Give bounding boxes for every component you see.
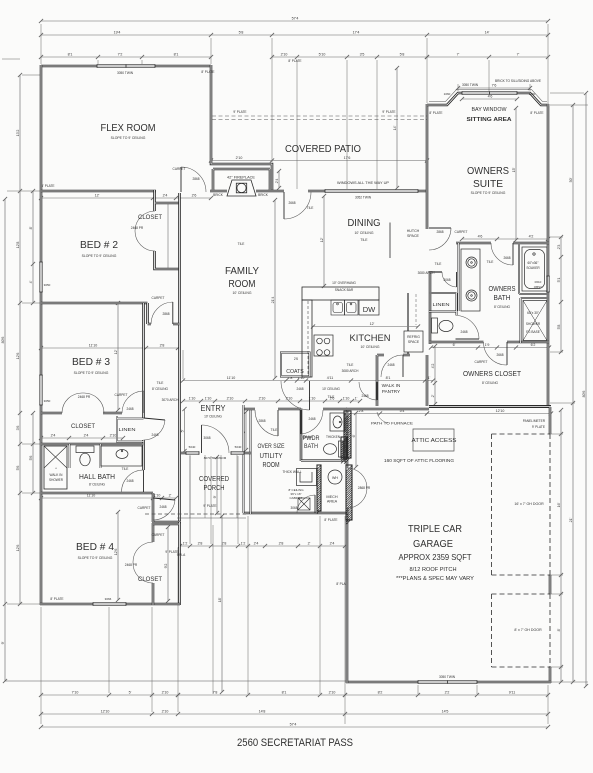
porch post lines — [190, 455, 237, 518]
dim suite v — [515, 108, 517, 240]
svg-text:1'2: 1'2 — [241, 541, 246, 545]
svg-text:3050 TWIN: 3050 TWIN — [462, 83, 479, 87]
fixture owners vanity — [461, 249, 480, 311]
fixture walk-in shower — [44, 446, 67, 489]
svg-text:4'11: 4'11 — [327, 376, 333, 380]
ext right h10 — [550, 666, 563, 668]
door bed3 2468 — [143, 391, 145, 413]
svg-text:50': 50' — [569, 177, 573, 182]
wall porch east / utility west — [250, 409, 252, 514]
svg-text:SPACE: SPACE — [408, 340, 420, 344]
svg-text:LINEN: LINEN — [433, 302, 450, 307]
ext left h3 — [22, 302, 40, 304]
svg-text:2'10: 2'10 — [110, 433, 117, 437]
svg-text:8' PLATE: 8' PLATE — [429, 111, 442, 115]
svg-text:OBSC: OBSC — [534, 285, 543, 289]
svg-text:5'10: 5'10 — [319, 52, 326, 56]
dim bed3 v — [117, 303, 119, 410]
svg-text:OWNERS: OWNERS — [489, 286, 516, 293]
svg-text:CARPET: CARPET — [115, 393, 128, 397]
door garage double 2868PR — [347, 468, 367, 508]
svg-text:2560 SECRETARIAT PASS: 2560 SECRETARIAT PASS — [237, 737, 353, 749]
svg-text:3080 ARCH: 3080 ARCH — [342, 369, 360, 373]
wall linen-suite walls — [429, 293, 457, 315]
svg-text:CARPET: CARPET — [152, 533, 165, 537]
furnace leader — [377, 412, 388, 423]
svg-text:12'6: 12'6 — [16, 545, 20, 552]
svg-text:4' PLATE: 4' PLATE — [41, 184, 54, 188]
fixture wc toilet — [432, 318, 454, 333]
svg-text:BED # 2: BED # 2 — [80, 240, 118, 251]
svg-text:2468: 2468 — [308, 417, 315, 421]
svg-text:10' CEILING: 10' CEILING — [361, 345, 380, 349]
dim porch v — [216, 457, 218, 513]
svg-text:1'10: 1'10 — [154, 493, 161, 497]
fixture stove — [314, 335, 333, 356]
svg-text:8070 TRANSOM: 8070 TRANSOM — [204, 456, 227, 460]
svg-text:REFRIG: REFRIG — [407, 335, 420, 339]
svg-text:2': 2' — [308, 541, 311, 545]
svg-text:BAY WINDOW: BAY WINDOW — [472, 107, 507, 113]
door bed2 closet bifold 2468PR — [135, 211, 155, 251]
wall pwdr-utility wall — [301, 436, 312, 438]
ext x297 — [296, 60, 298, 189]
dim left overall — [4, 199, 6, 681]
svg-text:12'10: 12'10 — [101, 709, 110, 713]
svg-text:TILE: TILE — [360, 238, 368, 242]
svg-text:DINING: DINING — [348, 218, 381, 229]
svg-text:2'10: 2'10 — [259, 396, 266, 400]
dim hall row dims — [183, 380, 433, 382]
svg-text:PWDR: PWDR — [303, 436, 321, 442]
svg-text:15': 15' — [512, 167, 516, 172]
svg-text:14': 14' — [485, 30, 490, 34]
door pantry 2468 — [402, 355, 404, 377]
ext right h3 — [550, 402, 575, 404]
svg-text:GARAGE: GARAGE — [413, 539, 453, 550]
svg-text:10' CEILING: 10' CEILING — [204, 415, 222, 419]
ext right h2 — [550, 92, 584, 94]
svg-text:SLOPE TO 9' CEILING: SLOPE TO 9' CEILING — [74, 371, 109, 375]
svg-text:1060: 1060 — [529, 92, 536, 96]
svg-text:2'8: 2'8 — [222, 541, 227, 545]
svg-text:16': 16' — [557, 502, 561, 507]
svg-text:SPACE: SPACE — [407, 234, 420, 238]
window bay 3050 twin — [462, 91, 517, 94]
wall pwdr west — [300, 409, 303, 461]
bay outer sill — [429, 90, 547, 102]
svg-text:5'8: 5'8 — [557, 325, 561, 330]
ext bx238 — [237, 456, 239, 544]
dim left small — [32, 191, 34, 303]
svg-text:2'10: 2'10 — [236, 156, 243, 160]
svg-text:COVERED: COVERED — [199, 474, 229, 483]
ext bx213 — [212, 525, 214, 694]
svg-text:3066: 3066 — [105, 597, 112, 601]
svg-text:1'10: 1'10 — [189, 396, 196, 400]
ext left h5 — [22, 492, 40, 494]
svg-text:2668: 2668 — [496, 353, 503, 357]
svg-text:9'11: 9'11 — [509, 690, 515, 694]
ext x272 — [271, 38, 273, 162]
svg-text:CABINET: CABINET — [289, 496, 302, 500]
svg-text:7'2: 7'2 — [118, 52, 123, 56]
svg-text:5'1: 5'1 — [557, 278, 561, 283]
dim left small2 — [32, 413, 34, 493]
svg-text:THICK WALL: THICK WALL — [282, 470, 301, 474]
svg-text:14': 14' — [393, 125, 397, 130]
fixture kitchen island — [302, 300, 312, 377]
svg-text:BATH: BATH — [494, 295, 511, 302]
wall bed2 closet — [155, 190, 180, 269]
svg-text:2468: 2468 — [159, 505, 166, 509]
dim dining v — [323, 196, 325, 286]
svg-text:1': 1' — [355, 396, 358, 400]
svg-text:CARPET: CARPET — [455, 230, 468, 234]
ext bx345 — [344, 516, 346, 724]
svg-text:SUITE: SUITE — [473, 179, 503, 190]
svg-text:1'10: 1'10 — [205, 396, 212, 400]
svg-text:8': 8' — [29, 226, 33, 229]
svg-text:SLOPE TO 9' CEILING: SLOPE TO 9' CEILING — [82, 254, 117, 258]
svg-text:9' PLATE: 9' PLATE — [203, 504, 216, 508]
svg-text:6'2: 6'2 — [531, 343, 536, 347]
dim closet12-10 — [427, 413, 551, 415]
svg-text:PATH TO FURNACE: PATH TO FURNACE — [371, 422, 414, 426]
ext right h1 — [550, 104, 588, 106]
svg-text:12'6: 12'6 — [16, 353, 20, 360]
svg-text:ENTRY: ENTRY — [201, 404, 227, 413]
fixture hall bath sink — [101, 446, 142, 466]
ext bx418 — [417, 685, 419, 694]
svg-text:TILE: TILE — [307, 206, 314, 210]
svg-text:8' CEILING: 8' CEILING — [482, 381, 499, 385]
svg-text:TILE: TILE — [238, 242, 245, 246]
door mech 3068 — [314, 495, 316, 513]
fixture WH — [328, 470, 342, 484]
svg-text:2'10: 2'10 — [329, 690, 336, 694]
svg-text:BRICK: BRICK — [213, 193, 224, 197]
svg-text:18': 18' — [218, 597, 222, 602]
wall fireplace nook — [213, 169, 270, 190]
bay window mullion — [489, 91, 491, 94]
OH door 16x7 dashes — [492, 434, 551, 575]
svg-text:11'10: 11'10 — [227, 376, 235, 380]
wall tub walls — [519, 243, 549, 294]
svg-text:HALL BATH: HALL BATH — [79, 472, 115, 481]
fixture cabinet mech — [297, 469, 317, 486]
svg-text:12': 12' — [95, 193, 100, 197]
ext x347 — [346, 60, 348, 189]
svg-text:4'6: 4'6 — [488, 94, 493, 98]
svg-text:BATH: BATH — [304, 444, 318, 450]
svg-text:1'2: 1'2 — [183, 541, 188, 545]
svg-text:9'PLA: 9'PLA — [177, 553, 186, 557]
ext bx41 — [40, 607, 42, 724]
svg-text:2'10: 2'10 — [162, 690, 169, 694]
svg-text:3050: 3050 — [44, 283, 51, 287]
ext right h4 — [551, 681, 588, 683]
svg-text:16' x 7' OH DOOR: 16' x 7' OH DOOR — [514, 502, 544, 506]
svg-text:8' PLATE: 8' PLATE — [530, 111, 543, 115]
ext left h2 — [7, 603, 40, 605]
svg-text:8' CEILING: 8' CEILING — [89, 483, 106, 487]
svg-text:2868 PR: 2868 PR — [358, 486, 371, 490]
svg-text:CLOSET: CLOSET — [138, 215, 162, 221]
svg-text:2868: 2868 — [162, 312, 169, 316]
svg-text:SOAKER: SOAKER — [526, 266, 540, 270]
door bed2 entry 2868 — [172, 302, 174, 324]
dim bay 45 dim — [462, 98, 517, 100]
svg-text:9': 9' — [213, 495, 217, 498]
window bed3 left 3050 — [39, 375, 42, 405]
svg-text:3068: 3068 — [203, 436, 210, 440]
svg-text:2'8: 2'8 — [279, 541, 284, 545]
svg-text:2': 2' — [431, 394, 435, 397]
svg-text:2'3: 2'3 — [557, 245, 561, 250]
svg-text:3052 TWIN: 3052 TWIN — [355, 196, 372, 200]
svg-text:10' CEILING: 10' CEILING — [355, 231, 374, 235]
svg-text:5': 5' — [129, 690, 132, 694]
svg-text:HUTCH: HUTCH — [407, 229, 420, 233]
dim bed4 hall dims — [41, 497, 176, 499]
svg-text:21'4: 21'4 — [271, 297, 275, 304]
svg-text:8'1: 8'1 — [174, 52, 179, 56]
fixture fireplace firebox — [227, 180, 256, 196]
wall pwdr south — [301, 459, 347, 461]
attic access box — [413, 429, 454, 451]
svg-text:2468: 2468 — [296, 387, 303, 391]
dim fireplace v — [278, 171, 280, 188]
svg-text:5': 5' — [180, 429, 184, 432]
svg-text:3'5: 3'5 — [360, 52, 365, 56]
dim entry vR — [245, 412, 247, 450]
wall hall east stub — [152, 493, 155, 522]
ext right h7 — [550, 433, 563, 435]
door pwdr 2468 — [300, 410, 302, 434]
dim top overall 57-4 — [41, 20, 548, 22]
svg-text:5040: 5040 — [189, 445, 196, 449]
svg-text:2'4: 2'4 — [84, 433, 89, 437]
wall utility top — [243, 408, 347, 411]
svg-text:80'6: 80'6 — [582, 391, 586, 398]
svg-text:12'10: 12'10 — [496, 409, 505, 413]
flex window mullion — [125, 64, 127, 67]
svg-text:CARPET: CARPET — [475, 360, 488, 364]
svg-text:APPROX 2359 SQFT: APPROX 2359 SQFT — [399, 552, 472, 562]
svg-text:WALK IN: WALK IN — [50, 473, 63, 477]
wall bath north — [429, 271, 442, 273]
door suite 2868 — [429, 227, 451, 229]
svg-text:2'4: 2'4 — [163, 193, 168, 197]
wall bed4 closet top — [153, 523, 179, 526]
svg-text:9' PLATE: 9' PLATE — [233, 110, 246, 114]
svg-text:SLOPE TO 9' CEILING: SLOPE TO 9' CEILING — [111, 136, 146, 140]
svg-text:8' PLATE: 8' PLATE — [288, 59, 301, 63]
9ft plate dashed patio — [212, 116, 427, 120]
dim right 50 — [572, 105, 574, 682]
svg-text:2468: 2468 — [361, 394, 368, 398]
wall linen hall box — [117, 416, 144, 444]
wall mech south wall — [301, 512, 347, 514]
svg-text:17'4: 17'4 — [353, 30, 360, 34]
svg-text:ATTIC ACCESS: ATTIC ACCESS — [412, 438, 457, 444]
svg-text:2'8: 2'8 — [198, 541, 203, 545]
svg-text:TILE: TILE — [157, 381, 164, 385]
svg-text:PORCH: PORCH — [204, 483, 225, 492]
door linen hall 2468 — [144, 418, 166, 420]
dim patio dims — [211, 160, 427, 162]
door owners closet 2668 — [506, 342, 508, 365]
kitchen upper cabinets dash — [415, 294, 417, 325]
wall bed2 south / bed3 north — [41, 302, 148, 305]
door suite bath 2668 — [512, 243, 514, 265]
svg-text:FAMILY: FAMILY — [225, 266, 259, 277]
wall shower walls — [521, 298, 550, 343]
wall toilet niche stubs — [70, 444, 101, 468]
svg-text:12': 12' — [114, 349, 118, 354]
dim bottom row3 — [41, 726, 548, 728]
wall family west — [178, 193, 181, 453]
svg-text:8': 8' — [557, 628, 561, 631]
svg-text:2'2: 2'2 — [445, 690, 450, 694]
dim left rooms — [19, 75, 21, 604]
dim oclos v — [434, 346, 436, 404]
svg-text:3068: 3068 — [290, 506, 297, 510]
svg-text:3050 TWIN: 3050 TWIN — [117, 71, 134, 75]
svg-text:7': 7' — [457, 52, 460, 56]
wall closet south / bath north — [41, 443, 144, 446]
svg-text:PANTRY: PANTRY — [382, 389, 400, 394]
ext bx477 — [476, 685, 478, 694]
svg-text:5'8: 5'8 — [239, 30, 244, 34]
svg-text:2468: 2468 — [151, 433, 158, 437]
svg-text:TRIPLE CAR: TRIPLE CAR — [408, 524, 462, 535]
svg-text:6': 6' — [352, 434, 356, 437]
svg-text:11'10: 11'10 — [89, 343, 97, 347]
svg-text:5'6: 5'6 — [29, 456, 33, 461]
fixture pwdr sink — [330, 413, 345, 431]
svg-text:7'10: 7'10 — [72, 690, 79, 694]
svg-text:2468 PR: 2468 PR — [125, 563, 138, 567]
svg-text:CARPET: CARPET — [138, 506, 151, 510]
ext x142 — [141, 60, 143, 64]
svg-text:4'2: 4'2 — [431, 364, 435, 369]
wall bay window assembly — [427, 93, 549, 105]
fixture pwdr toilet — [324, 441, 344, 457]
svg-text:6': 6' — [453, 343, 456, 347]
svg-text:3050 TWIN: 3050 TWIN — [439, 675, 456, 679]
dim family v — [274, 200, 276, 378]
svg-text:2'6: 2'6 — [294, 357, 298, 361]
wall bed4 bottom — [40, 603, 180, 606]
ext bx211p — [210, 456, 212, 544]
svg-text:12'6: 12'6 — [114, 549, 118, 556]
svg-text:1'10: 1'10 — [343, 396, 350, 400]
svg-text:WALK IN: WALK IN — [382, 383, 401, 388]
dim top row C left — [41, 56, 211, 58]
fixture kitchen sink — [331, 300, 358, 315]
svg-text:TILE: TILE — [487, 260, 494, 264]
dim kitchen dim — [313, 326, 418, 328]
svg-text:UTILITY: UTILITY — [260, 453, 283, 460]
hatched thick wall garage/pwdr — [317, 411, 352, 524]
svg-text:FLEX ROOM: FLEX ROOM — [101, 123, 156, 134]
svg-text:2468 PR: 2468 PR — [131, 226, 144, 230]
ext x377 — [376, 60, 378, 189]
dim patio v — [396, 68, 398, 188]
svg-text:160 SQFT OF ATTIC FLOORING: 160 SQFT OF ATTIC FLOORING — [384, 458, 454, 463]
dim top row C right — [427, 56, 548, 58]
svg-text:2'10: 2'10 — [162, 709, 169, 713]
wall wc south / oclos north — [429, 341, 549, 344]
svg-text:8'2: 8'2 — [378, 690, 383, 694]
ext x548 — [547, 24, 549, 103]
svg-text:SNACK BAR: SNACK BAR — [335, 288, 354, 292]
svg-text:CARPET: CARPET — [152, 296, 165, 300]
svg-text:2668: 2668 — [503, 256, 510, 260]
svg-text:SHOWER: SHOWER — [49, 478, 63, 482]
ext bx248 — [247, 516, 249, 694]
svg-text:3070 ARCH: 3070 ARCH — [162, 398, 180, 402]
svg-text:***PLANS & SPEC MAY VARY: ***PLANS & SPEC MAY VARY — [396, 576, 474, 582]
ext bx320 — [319, 516, 321, 694]
svg-text:57'4: 57'4 — [292, 16, 299, 20]
svg-text:2468 PR: 2468 PR — [78, 395, 91, 399]
ext right h6 — [550, 351, 563, 353]
svg-text:BED # 4: BED # 4 — [76, 542, 114, 553]
wall furnace hall wall — [346, 408, 429, 411]
svg-text:60"x 30": 60"x 30" — [527, 311, 539, 315]
door utility 2868 — [277, 410, 279, 436]
wall bed4 closet west — [152, 523, 155, 605]
svg-text:13'2: 13'2 — [16, 130, 20, 137]
wall family-dining north (patio wall) — [210, 190, 428, 193]
wall entry front wall — [181, 452, 251, 455]
ext x530 — [529, 84, 531, 91]
svg-text:9'2: 9'2 — [164, 564, 168, 569]
svg-text:WH: WH — [332, 476, 338, 480]
dim bottom row1 left — [41, 694, 178, 696]
svg-text:2'4: 2'4 — [51, 433, 56, 437]
fixture hall bath toilet — [76, 446, 94, 466]
dim top row C mid — [272, 56, 427, 58]
svg-text:8' CEILING: 8' CEILING — [152, 387, 169, 391]
dim right overall — [585, 93, 587, 686]
svg-text:OWNERS CLOSET: OWNERS CLOSET — [463, 369, 521, 378]
svg-text:COATS: COATS — [286, 369, 304, 375]
svg-text:2'10: 2'10 — [227, 396, 234, 400]
svg-text:7'6: 7'6 — [492, 83, 497, 87]
window entry sidelight L — [186, 451, 199, 454]
wall coats box — [281, 353, 310, 377]
door flex hall 2868 — [180, 167, 182, 192]
svg-text:2': 2' — [169, 493, 172, 497]
svg-text:ROOM: ROOM — [263, 462, 280, 469]
svg-text:TILE: TILE — [328, 395, 335, 399]
svg-text:5040: 5040 — [235, 445, 242, 449]
svg-text:BED # 3: BED # 3 — [72, 357, 110, 368]
window bed2 left 3050 — [39, 262, 42, 292]
door entry front 3068 — [201, 425, 203, 453]
svg-text:8' PLATE: 8' PLATE — [50, 597, 63, 601]
window bath 0610 — [546, 276, 549, 292]
svg-text:3'6: 3'6 — [16, 426, 20, 431]
svg-text:BRICK: BRICK — [258, 193, 269, 197]
svg-text:TILE: TILE — [271, 428, 278, 432]
svg-text:1060: 1060 — [444, 92, 451, 96]
dim top row B — [41, 34, 548, 36]
